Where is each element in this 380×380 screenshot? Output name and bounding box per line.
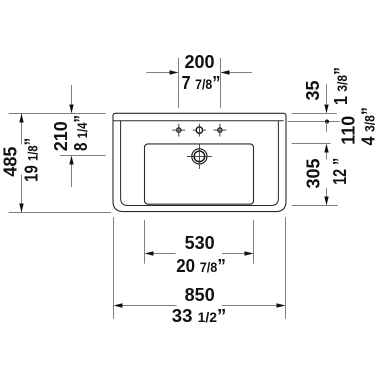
svg-text:210: 210	[51, 121, 71, 151]
svg-text:8 1/4”: 8 1/4”	[71, 115, 91, 151]
svg-text:19 1/8”: 19 1/8”	[22, 138, 42, 182]
rim bottom line	[113, 120, 284, 122]
dim 530 extension line left	[144, 220, 146, 264]
label 530	[185, 233, 215, 253]
svg-text:485: 485	[1, 147, 21, 177]
label 210	[51, 121, 71, 151]
label 7 7/8"	[182, 73, 221, 93]
label 485	[1, 147, 21, 177]
label 110	[339, 116, 359, 145]
dim 305 extension line bottom	[292, 205, 338, 207]
svg-text:35: 35	[303, 80, 323, 100]
label 4 3/8"	[359, 107, 379, 146]
dim 35 extension line (rim top)	[292, 113, 337, 115]
dim 210 line top arrow	[69, 85, 73, 114]
dim 210 extension line bottom	[60, 155, 106, 157]
dim 110 line segment	[326, 122, 328, 132]
dim 850 extension line left	[113, 217, 115, 319]
label 33 1/2"	[172, 306, 227, 326]
label 12 "	[330, 158, 350, 185]
dim 485 extension line top	[9, 113, 106, 115]
dim 110 extension line (interior top)	[292, 143, 331, 145]
faucet hole right	[214, 124, 227, 137]
dim 35 line with down arrow	[324, 84, 328, 113]
label 35	[303, 80, 323, 100]
dim 35 extension line (rim bottom) with dot	[288, 119, 340, 123]
svg-text:33 1/2”: 33 1/2”	[172, 306, 227, 326]
label 8 1/4"	[71, 115, 91, 151]
svg-text:110: 110	[339, 116, 359, 145]
dim 200 extension line right	[220, 58, 222, 108]
svg-text:12 ”: 12 ”	[330, 158, 350, 185]
basin interior opening	[145, 144, 254, 204]
faucet hole left	[172, 124, 185, 137]
label 1 3/8"	[331, 67, 351, 105]
dim 850 line with arrows	[114, 303, 286, 307]
dim 200 extension line left	[178, 58, 180, 108]
dim 305 top arrow	[324, 144, 328, 160]
svg-text:20 7/8”: 20 7/8”	[176, 256, 226, 276]
label 305	[304, 158, 324, 188]
dim 530 line with arrows	[145, 251, 254, 255]
dim 485 line	[19, 114, 23, 213]
label 200	[184, 52, 214, 72]
label 20 7/8"	[176, 256, 226, 276]
dim 530 extension line right	[253, 220, 255, 264]
drain hole	[187, 144, 212, 169]
svg-text:530: 530	[185, 233, 215, 253]
dim 850 extension line right	[285, 217, 287, 319]
svg-text:4 3/8”: 4 3/8”	[359, 107, 379, 146]
svg-text:305: 305	[304, 158, 324, 188]
svg-text:7 7/8”: 7 7/8”	[182, 73, 221, 93]
svg-text:1 3/8”: 1 3/8”	[331, 67, 351, 105]
svg-text:850: 850	[185, 285, 215, 305]
svg-text:200: 200	[184, 52, 214, 72]
dim 200 left arrow	[146, 70, 178, 74]
label 19 1/8"	[22, 138, 42, 182]
dim 210 line bottom arrow	[69, 156, 73, 188]
dim 305 bottom arrow	[324, 188, 328, 206]
dim 485 extension line bottom	[9, 212, 111, 214]
dim 200 right arrow	[221, 70, 253, 74]
label 850	[185, 285, 215, 305]
basin inner silhouette	[121, 121, 279, 206]
faucet hole center	[193, 124, 206, 137]
washbasin outer contour	[113, 113, 286, 211]
